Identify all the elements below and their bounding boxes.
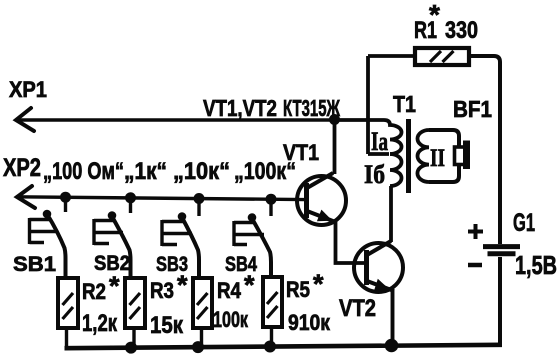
- svg-text:1,5В: 1,5В: [515, 250, 557, 280]
- svg-text:II: II: [430, 145, 445, 172]
- node junction on XP2 line branch 2: [125, 192, 136, 203]
- svg-text:100к: 100к: [213, 307, 249, 332]
- node junction on XP2 line branch 1: [60, 192, 71, 203]
- svg-text:*: *: [109, 271, 120, 301]
- label minus sign: [468, 263, 482, 268]
- svg-text:SB1: SB1: [13, 253, 56, 276]
- svg-text:Т1: Т1: [393, 91, 416, 117]
- battery G1 plate long: [483, 244, 520, 249]
- switch SB3: [162, 200, 199, 278]
- svg-text:*: *: [177, 270, 188, 300]
- transistor VT1: [297, 173, 346, 225]
- svg-text:R5: R5: [286, 277, 310, 302]
- svg-text:„10к“: „10к“: [173, 158, 230, 185]
- node junction on XP2 line branch 4: [266, 194, 277, 205]
- transformer T1 primary winding Ia: [334, 120, 402, 154]
- switch SB2: [94, 199, 131, 278]
- svg-text:VТ1,VТ2: VТ1,VТ2: [203, 95, 277, 121]
- svg-text:*: *: [244, 270, 255, 300]
- transformer T1 secondary winding II: [417, 130, 429, 182]
- svg-text:BF1: BF1: [453, 96, 492, 122]
- wire R1 right to right rail: [469, 56, 500, 244]
- probe XP2 arrow: [17, 186, 35, 208]
- probe XP1 arrow: [16, 108, 34, 131]
- svg-text:„1к“: „1к“: [124, 158, 167, 185]
- svg-text:XP2: XP2: [3, 154, 41, 182]
- wire secondary loop bottom: [429, 164, 459, 182]
- svg-text:330: 330: [445, 17, 478, 44]
- wire battery to bottom rail: [498, 257, 502, 345]
- svg-text:910к: 910к: [288, 310, 331, 335]
- switch SB4: [234, 199, 271, 278]
- wire VT2 collector to transformer: [389, 186, 393, 242]
- resistor R5 body: [263, 277, 282, 347]
- resistor R1 body: [415, 48, 469, 65]
- wire secondary loop top: [429, 130, 459, 147]
- wire R1 left: [368, 54, 415, 58]
- svg-text:Iб: Iб: [364, 160, 385, 189]
- svg-text:1,2к: 1,2к: [82, 310, 118, 337]
- resistor R3 body: [125, 278, 145, 347]
- wire tap to winding: [368, 152, 389, 156]
- node rail junction VT2 emitter: [385, 339, 399, 353]
- transistor VT2: [354, 241, 403, 292]
- resistor R2 body: [58, 278, 78, 347]
- node rail junction R3: [125, 342, 137, 354]
- svg-text:VТ1: VТ1: [283, 140, 319, 165]
- node junction on XP2 line branch 3: [194, 193, 205, 204]
- node junction top (collector / XP1): [329, 114, 340, 125]
- wire VT1 emitter to VT2 base: [336, 220, 365, 263]
- wire VT1 collector up: [333, 118, 337, 174]
- battery G1 plate short: [488, 251, 516, 256]
- wire XP2 line (VT1 base wire): [17, 197, 304, 200]
- node rail junction R5: [264, 341, 276, 353]
- resistor R4 body: [193, 278, 212, 347]
- svg-text:R3: R3: [150, 278, 174, 303]
- svg-text:VТ2: VТ2: [339, 295, 376, 322]
- svg-text:Iа: Iа: [371, 127, 388, 156]
- wire bottom rail: [65, 345, 503, 348]
- svg-text:*: *: [429, 0, 440, 30]
- svg-text:„100 Ом“: „100 Ом“: [43, 158, 124, 185]
- transformer T1 primary winding Ib: [390, 154, 402, 186]
- transformer core: [406, 119, 411, 193]
- svg-text:R2: R2: [82, 279, 106, 304]
- node rail junction R4: [192, 341, 204, 353]
- transistor VT1 emitter arrow: [317, 210, 333, 222]
- wire R1 down to transformer tap: [366, 56, 370, 154]
- wire VT2 emitter down: [391, 290, 395, 346]
- switch SB1: [30, 199, 66, 278]
- label plus sign: [468, 224, 483, 239]
- svg-text:15к: 15к: [150, 312, 184, 339]
- svg-text:*: *: [313, 269, 324, 299]
- svg-text:R4: R4: [217, 278, 242, 303]
- transistor VT2 emitter arrow: [374, 279, 390, 291]
- svg-text:XP1: XP1: [9, 77, 47, 102]
- wire XP1 line: [16, 118, 334, 121]
- earphone BF1 capsule: [455, 141, 471, 170]
- svg-text:G1: G1: [513, 209, 535, 237]
